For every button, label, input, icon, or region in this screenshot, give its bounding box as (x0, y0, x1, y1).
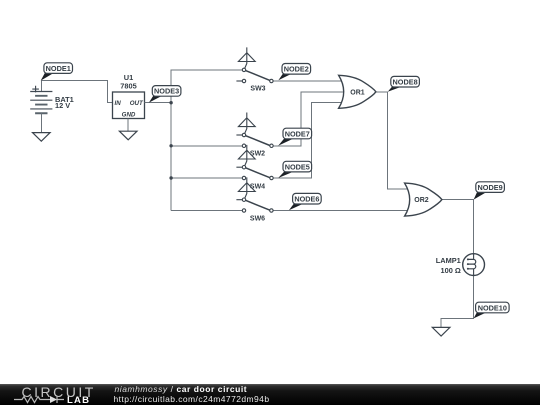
svg-text:7805: 7805 (120, 82, 136, 91)
wire: NODE3 vertical bus with top branch to SW3 (171, 70, 244, 211)
switch SW4 (236, 166, 273, 191)
lamp LAMP1 100 ohm (436, 254, 485, 276)
node NODE7 label (278, 128, 311, 146)
antenna above SW2 (238, 113, 255, 134)
battery BAT1 (30, 86, 74, 113)
wire: SW6 output to OR2 bottom input (NODE6 net) (273, 210, 408, 212)
node NODE10 label (474, 302, 510, 318)
svg-text:OR1: OR1 (350, 89, 365, 96)
wire: bus branch to SW6 (171, 210, 243, 212)
wire: OR1 output right then down to OR2 top input (NODE8 net) (376, 92, 408, 189)
junction at U1 OUT (169, 101, 172, 104)
svg-text:SW3: SW3 (250, 86, 265, 93)
svg-text:SW6: SW6 (250, 216, 265, 223)
footer title line (115, 384, 248, 394)
svg-text:NODE7: NODE7 (285, 129, 310, 138)
wire: OR2 output to NODE9 corner then down to lamp (442, 200, 474, 254)
svg-text:SW4: SW4 (250, 184, 265, 191)
svg-text:NODE8: NODE8 (393, 78, 418, 87)
or-gate OR2 (405, 183, 442, 216)
svg-text:NODE2: NODE2 (284, 65, 309, 74)
node NODE9 label (474, 182, 505, 200)
svg-text:NODE1: NODE1 (46, 64, 71, 73)
svg-text:GND: GND (122, 111, 136, 118)
wire: SW3 output to OR1 top input (NODE2 net) (273, 80, 342, 82)
wire: battery negative down (40, 113, 42, 132)
svg-text:NODE9: NODE9 (478, 183, 503, 192)
ground below battery (33, 133, 51, 142)
ground below U1 (119, 131, 137, 140)
svg-text:OR2: OR2 (414, 197, 429, 204)
svg-text:NODE6: NODE6 (294, 195, 319, 204)
svg-text:IN: IN (115, 100, 122, 107)
wire: bus branch to SW2 (171, 145, 242, 147)
switch SW6 (236, 198, 273, 223)
footer url line (114, 394, 270, 404)
node NODE6 label (289, 193, 321, 210)
wire: SW4 output up to OR1 bottom input (NODE5 net) (273, 103, 342, 178)
switch SW3 (236, 68, 273, 92)
svg-text:12 V: 12 V (55, 101, 70, 110)
wire: battery positive to NODE1 corner to U1 IN pin (41, 81, 112, 103)
footer bar (0, 384, 540, 405)
node NODE2 label (278, 64, 310, 81)
wire: lamp bottom down, left, to ground (NODE10 net) (441, 276, 474, 328)
node NODE1 label (41, 63, 73, 81)
wire: U1 OUT to NODE3 bus (145, 102, 172, 104)
CircuitLab logo (22, 384, 96, 400)
junction at SW4 branch (169, 176, 172, 179)
svg-text:NODE5: NODE5 (285, 162, 310, 171)
antenna above SW6 (238, 177, 255, 198)
wire: SW2 output up to OR1 middle input (NODE7 net) (273, 92, 344, 146)
svg-text:LAB: LAB (67, 395, 90, 405)
svg-text:NODE3: NODE3 (154, 87, 179, 96)
or-gate OR1 (339, 75, 376, 108)
wire: bus branch to SW4 (171, 177, 242, 179)
ground at bottom right (432, 327, 450, 336)
switch SW2 (236, 133, 273, 157)
antenna above SW3 (238, 47, 255, 68)
voltage regulator U1 7805 (113, 73, 145, 119)
wire: U1 GND pin down (127, 119, 129, 132)
svg-text:OUT: OUT (130, 100, 144, 107)
svg-text:NODE10: NODE10 (478, 303, 507, 312)
node NODE3 label (149, 86, 181, 103)
svg-text:100 Ω: 100 Ω (440, 266, 460, 275)
node NODE8 label (388, 76, 420, 91)
logo resistor-diode motif (14, 397, 50, 403)
antenna above SW4 (238, 145, 255, 166)
svg-text:LAMP1: LAMP1 (436, 256, 461, 265)
node NODE5 label (278, 161, 311, 178)
svg-text:U1: U1 (124, 73, 133, 82)
junction at SW2 branch (169, 144, 172, 147)
